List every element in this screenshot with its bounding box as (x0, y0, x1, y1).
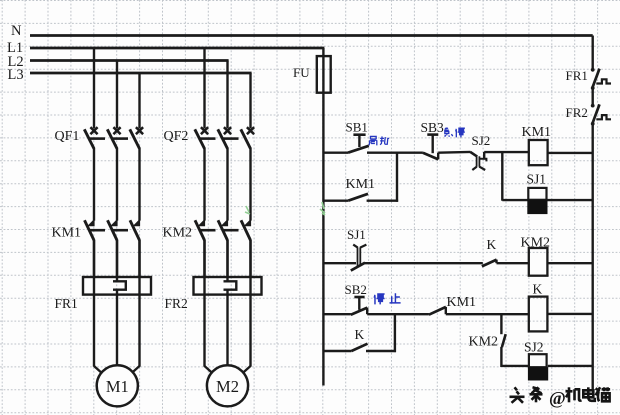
time contact SJ2 (NC delayed) (470, 152, 477, 157)
motor M2 circle (207, 365, 248, 406)
contactor KM2 main contact pole 3 (244, 219, 252, 227)
contactor KM1 main contact pole 1 (87, 219, 95, 227)
node D drop (500, 314, 502, 334)
svg-text:KM1: KM1 (52, 226, 82, 241)
svg-text:M2: M2 (216, 377, 239, 396)
wire node A to SB3 (397, 151, 423, 153)
wires FR2 to motor M2 (203, 240, 205, 367)
wire rail to K aux (323, 350, 351, 352)
thermal contact FR2 (592, 104, 599, 123)
node B drop (501, 152, 503, 201)
left control rail (322, 48, 324, 386)
coil KM2 (529, 248, 548, 276)
node C drop (394, 314, 396, 352)
svg-text:FR2: FR2 (566, 105, 588, 120)
svg-text:QF2: QF2 (164, 129, 189, 144)
time relay coil SJ2 (529, 354, 547, 367)
svg-text:QF1: QF1 (55, 129, 80, 144)
svg-text:FR1: FR1 (55, 296, 78, 311)
svg-text:KM1: KM1 (447, 295, 477, 310)
wire K aux to node C (366, 350, 396, 352)
svg-text:FR1: FR1 (566, 68, 588, 83)
pushbutton SB3 emergency stop (427, 133, 438, 136)
contactor KM2 main contact pole 1 (198, 219, 206, 227)
thermal relay FR1 heater box (83, 277, 151, 295)
right control rail upper (592, 36, 594, 70)
fuse FU (317, 56, 331, 93)
wire KM2 contact to SJ2 coil (501, 365, 529, 367)
bus L1 (30, 47, 324, 50)
svg-text:SJ2: SJ2 (472, 133, 491, 148)
wire QF2 pole2 through FR2 (226, 240, 228, 278)
bus N (30, 34, 593, 37)
time contact SJ1 (NO delayed) (357, 247, 359, 266)
svg-text:KM1: KM1 (346, 177, 376, 192)
wire SJ2 contact to KM1 coil (484, 151, 529, 153)
wire rail to SB2 (323, 313, 350, 315)
contactor KM1 main contact pole 3 (133, 219, 141, 227)
wire KM1 contact to K coil (446, 313, 529, 315)
wire SB3 to SJ2 contact (438, 151, 470, 154)
wire KM1 coil to rail (548, 152, 593, 154)
wire node B to SJ1 coil (502, 199, 528, 201)
wire KM1 aux to node A (367, 199, 399, 201)
contact K NO (rung3) (482, 260, 497, 267)
wire L3 to QF2 pole3 (249, 73, 251, 128)
svg-text:FR2: FR2 (165, 296, 188, 311)
svg-text:SB2: SB2 (345, 282, 367, 297)
wires FR1 to motor M1 (93, 240, 95, 367)
wire K coil to rail (547, 313, 592, 315)
contact KM1 NO (rung4) (429, 307, 446, 315)
label tingzhi (stop, blue) (374, 293, 384, 304)
wire SJ1 coil to rail (548, 199, 593, 201)
contactor KM1 main contact pole 2 (110, 219, 118, 227)
svg-text:SJ1: SJ1 (527, 172, 547, 187)
svg-text:SJ1: SJ1 (347, 227, 366, 242)
thermal relay FR2 heater box (194, 277, 262, 295)
right control rail mid (592, 88, 594, 106)
time relay coil SJ1 (528, 188, 546, 200)
pushbutton SB2 stop (354, 296, 364, 299)
svg-text:K: K (355, 327, 365, 342)
wire K contact to KM2 coil (497, 262, 529, 264)
wire L1 to QF2 pole1 (203, 48, 205, 128)
wire SB2 to node C (367, 313, 396, 315)
svg-text:L3: L3 (8, 67, 24, 83)
breaker QF2 pole 2 (224, 127, 231, 134)
bus L3 (30, 72, 252, 75)
wire rail to KM1 aux (323, 199, 348, 201)
breaker QF1 pole 2 (113, 127, 120, 134)
breaker QF1 pole 3 (136, 127, 143, 134)
breaker QF2 pole 3 (247, 127, 254, 134)
wire KM2 coil to rail (547, 262, 592, 264)
svg-text:SJ2: SJ2 (524, 340, 544, 355)
wire QF1 pole2 through FR1 (116, 240, 118, 278)
coil K (529, 297, 548, 332)
svg-text:KM2: KM2 (521, 235, 551, 250)
svg-text:K: K (533, 282, 543, 297)
contact K auxiliary NO (352, 344, 368, 351)
wire node C to KM1 contact (395, 313, 429, 315)
breaker QF1 pole 1 (90, 127, 97, 134)
bus L2 (30, 59, 229, 62)
label jiting (e-stop, blue) (444, 128, 453, 137)
svg-text:FU: FU (293, 65, 310, 80)
svg-text:SB1: SB1 (346, 120, 368, 135)
svg-text:M1: M1 (106, 377, 129, 396)
right control rail lower (592, 124, 594, 389)
node A drop (396, 153, 398, 202)
pushbutton SB1 start (353, 133, 365, 136)
svg-text:KM2: KM2 (469, 334, 499, 349)
wire SB1 to node A (367, 151, 398, 153)
breaker QF2 pole 1 (201, 127, 208, 134)
wire SJ2 coil to rail (548, 365, 593, 367)
watermark speck 1 (245, 206, 250, 214)
wire L2 to QF2 pole2 (226, 61, 228, 129)
label qidong (start, blue) (369, 136, 377, 145)
wire SJ1 contact to K contact (365, 262, 483, 264)
wire L2 to QF1 pole2 (116, 61, 118, 129)
motor M1 circle (97, 365, 138, 406)
svg-text:@: @ (549, 388, 566, 408)
contactor KM2 main contact pole 2 (221, 219, 229, 227)
wire L3 to QF1 pole3 (138, 73, 140, 128)
svg-text:KM2: KM2 (163, 226, 193, 241)
wire rail to SB1 (323, 151, 348, 153)
contact KM1 auxiliary NO (348, 194, 368, 201)
svg-text:SB3: SB3 (421, 120, 445, 135)
contact KM2 NO (vertical) (502, 334, 506, 347)
wire rail to SJ1 contact (323, 262, 356, 264)
svg-text:KM1: KM1 (522, 125, 552, 140)
thermal contact FR1 (592, 69, 599, 88)
watermark speck 2 (320, 202, 325, 215)
svg-text:K: K (487, 237, 497, 252)
wire L1 to QF1 pole1 (93, 48, 95, 128)
svg-text:N: N (11, 23, 22, 39)
watermark toutiao @jidianmao (510, 387, 525, 403)
coil KM1 (529, 140, 548, 165)
